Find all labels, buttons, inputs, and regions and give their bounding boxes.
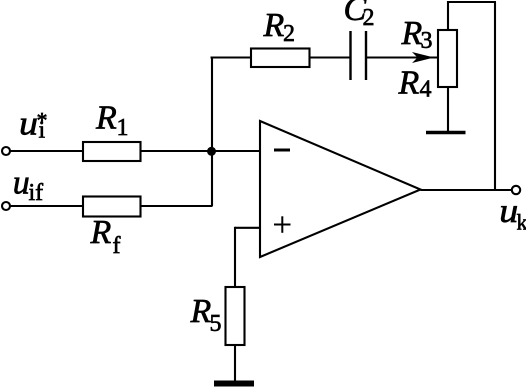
svg-text:if: if [29,180,44,206]
svg-text:R: R [90,214,112,251]
svg-text:k: k [517,210,526,235]
svg-text:4: 4 [420,77,432,103]
svg-text:2: 2 [283,21,295,47]
svg-text:u: u [13,165,30,202]
svg-text:R: R [401,15,423,52]
svg-text:R: R [95,100,117,137]
svg-text:f: f [113,233,121,259]
svg-text:2: 2 [363,5,375,31]
svg-text:R: R [190,293,212,330]
svg-text:1: 1 [117,115,129,141]
svg-text:R: R [398,65,420,102]
svg-text:i: i [39,118,46,144]
svg-text:R: R [263,7,285,44]
svg-text:u: u [499,193,518,230]
svg-text:5: 5 [210,311,222,337]
svg-text:u: u [19,106,38,143]
svg-text:3: 3 [421,28,433,54]
